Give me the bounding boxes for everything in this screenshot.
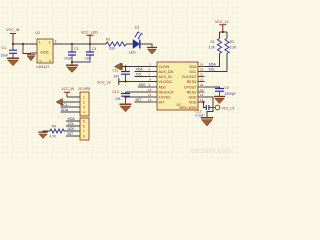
- svg-text:SCL: SCL: [190, 70, 197, 74]
- pin 8 INT: [66, 135, 85, 139]
- svg-text:AUX_DA: AUX_DA: [159, 70, 174, 74]
- wire FSYNC to gnd: [126, 96, 151, 98]
- wire VDD branch: [198, 102, 206, 108]
- pin INT 12: [148, 98, 165, 105]
- pin AD0 9: [149, 83, 166, 90]
- svg-text:20: 20: [200, 83, 204, 87]
- node junction CLKIN/C11: [124, 65, 126, 67]
- power port VCC_LED (on output rail): [81, 31, 98, 44]
- svg-text:VCC_LV: VCC_LV: [222, 107, 236, 111]
- wire output rail: [53, 43, 106, 45]
- pin GND 18: [189, 93, 205, 100]
- svg-text:10uF: 10uF: [1, 54, 9, 58]
- wire CPOUT to C9: [205, 87, 220, 88]
- svg-text:LM1117: LM1117: [37, 65, 50, 69]
- pin SDA 24: [189, 63, 204, 70]
- capacitor C1: [1, 44, 18, 58]
- node junction at caps gnd: [71, 61, 73, 63]
- svg-text:INT: INT: [159, 101, 166, 105]
- svg-text:AD0: AD0: [68, 127, 75, 131]
- pin AUX_CL 7: [149, 73, 173, 80]
- svg-text:SDA: SDA: [209, 63, 217, 67]
- svg-text:AD0: AD0: [159, 86, 166, 90]
- svg-text:3: 3: [83, 106, 85, 110]
- node junction at x90: [89, 43, 91, 45]
- node junction VCC split: [222, 31, 224, 33]
- svg-text:VCC_IN: VCC_IN: [6, 28, 20, 32]
- resistor R1: [106, 38, 126, 51]
- svg-text:SCL: SCL: [209, 68, 216, 72]
- wire SDA: [205, 54, 220, 67]
- svg-text:CPOUT: CPOUT: [184, 86, 197, 90]
- svg-text:22: 22: [200, 73, 204, 77]
- wire INT stub: [135, 101, 151, 103]
- svg-text:8: 8: [83, 135, 85, 139]
- wire AUX_CL stub: [135, 76, 151, 78]
- svg-text:R2: R2: [211, 40, 215, 44]
- svg-text:U2: U2: [36, 31, 40, 35]
- svg-text:CLKIN: CLKIN: [159, 65, 170, 69]
- capacitor C12: [196, 105, 215, 118]
- node junction FSYNC: [124, 96, 126, 98]
- svg-text:RESV: RESV: [187, 91, 197, 95]
- svg-text:VCC_LV: VCC_LV: [97, 81, 111, 85]
- svg-text:6: 6: [83, 125, 85, 129]
- connector J1 body lower: [80, 118, 89, 140]
- svg-text:10uF: 10uF: [64, 57, 72, 61]
- svg-text:1: 1: [83, 96, 85, 100]
- ground (IC GND, large): [201, 117, 213, 126]
- svg-text:19: 19: [200, 88, 204, 92]
- svg-text:SDA: SDA: [189, 65, 197, 69]
- pin AUX_DA 6: [149, 68, 174, 75]
- pin CLKIN 1: [150, 63, 170, 70]
- ground (C9): [214, 96, 225, 104]
- capacitor C4: [85, 44, 96, 61]
- svg-text:104: 104: [114, 75, 120, 79]
- power port VCC_LV (VLOGIC): [97, 78, 119, 84]
- svg-text:AUX_CL: AUX_CL: [159, 75, 173, 79]
- resistor R3: [225, 39, 237, 54]
- pin 5 XDA: [66, 120, 85, 124]
- pin RESV 21: [187, 78, 205, 85]
- svg-text:C3: C3: [74, 47, 78, 51]
- node junction VLOGIC: [124, 80, 126, 82]
- pin 6 XCL: [66, 125, 85, 129]
- svg-text:FSYNC: FSYNC: [159, 96, 172, 100]
- resistor R2: [209, 39, 222, 54]
- svg-text:21: 21: [200, 78, 204, 82]
- svg-text:MPU-6050: MPU-6050: [180, 106, 197, 110]
- svg-text:2.2K: 2.2K: [230, 46, 237, 50]
- svg-text:4: 4: [83, 111, 85, 115]
- node input junction: [12, 43, 14, 45]
- svg-text:XCL: XCL: [136, 73, 143, 77]
- node junction VDD: [202, 101, 204, 103]
- pin 7 AD0: [64, 130, 85, 134]
- wire caps ground join: [72, 55, 90, 64]
- svg-text:1: 1: [39, 40, 41, 44]
- svg-text:J1 DIP8: J1 DIP8: [78, 87, 90, 91]
- LED D1: [129, 26, 143, 55]
- pin SCL 23: [190, 68, 205, 75]
- pin 2 GND: [63, 101, 86, 105]
- svg-text:XDA: XDA: [68, 117, 76, 121]
- power port VCC_LV (top right): [215, 20, 229, 32]
- svg-text:elecfans.com: elecfans.com: [190, 148, 231, 155]
- svg-text:330: 330: [109, 47, 115, 51]
- svg-text:XCL: XCL: [68, 122, 75, 126]
- regulator U2: [31, 31, 59, 69]
- pin CLKOUT 22: [182, 73, 205, 80]
- ground (LED): [147, 47, 157, 54]
- svg-text:2: 2: [49, 40, 51, 44]
- capacitor C9: [215, 86, 236, 96]
- wire gnd branch from input rail: [23, 44, 31, 54]
- svg-text:GND: GND: [189, 96, 197, 100]
- svg-text:2200pF: 2200pF: [225, 92, 236, 96]
- svg-text:5: 5: [83, 120, 85, 124]
- power port VCC_IN (top left): [6, 28, 20, 44]
- wire LED cathode: [141, 44, 153, 47]
- connector J1 body upper: [80, 92, 89, 116]
- svg-text:C13: C13: [113, 90, 119, 94]
- pin 1 VCC: [67, 96, 85, 100]
- ground (left arrow on CLKIN): [115, 63, 123, 70]
- svg-text:D1: D1: [135, 26, 139, 30]
- capacitor C13: [113, 90, 131, 104]
- node junction at x72: [71, 43, 73, 45]
- wire R1 to LED: [126, 43, 133, 45]
- svg-text:SCL: SCL: [61, 103, 68, 107]
- svg-text:LED: LED: [129, 51, 136, 55]
- pin VDD 13: [189, 98, 205, 105]
- ground (left arrow at pin 2): [56, 99, 63, 106]
- svg-text:AD0: AD0: [139, 83, 146, 87]
- svg-text:VCC_LED: VCC_LED: [81, 31, 98, 35]
- svg-text:2: 2: [83, 101, 85, 105]
- svg-text:104: 104: [115, 97, 121, 101]
- op-amp U1 MPU-6050 body: [157, 62, 198, 110]
- ground (C13/FSYNC): [120, 104, 132, 112]
- resistor R4: [50, 125, 65, 139]
- svg-text:REGOUT: REGOUT: [159, 91, 175, 95]
- pin CPOUT 20: [184, 83, 205, 90]
- svg-text:R3: R3: [230, 40, 234, 44]
- svg-text:INT: INT: [68, 132, 75, 136]
- wire R4 to ground: [43, 130, 50, 133]
- wire REGOUT to C13: [126, 91, 151, 93]
- power port VCC_LV (circle, at VDD): [215, 105, 235, 111]
- svg-text:24: 24: [200, 63, 204, 67]
- svg-text:SDA: SDA: [61, 108, 69, 112]
- pin REGOUT 10: [148, 88, 175, 95]
- svg-text:RESV: RESV: [187, 80, 197, 84]
- wire VLOGIC: [119, 81, 157, 83]
- wire CLKIN to gnd arrow: [122, 66, 151, 68]
- svg-text:2.2K: 2.2K: [209, 46, 216, 50]
- pin 3 SCL: [61, 106, 86, 110]
- wire SCL: [205, 54, 228, 72]
- ground (regulator gnd pin): [27, 54, 35, 61]
- svg-text:R1: R1: [106, 38, 110, 42]
- svg-text:C9: C9: [225, 86, 229, 90]
- wire AUX_DA stub: [135, 71, 151, 73]
- wire pull-up split: [220, 32, 228, 39]
- svg-text:VCC_LV: VCC_LV: [215, 20, 229, 24]
- pin RESV 19: [187, 88, 205, 95]
- ground (below C1): [7, 58, 19, 66]
- svg-text:4.7K: 4.7K: [50, 135, 57, 139]
- ground (R4): [38, 132, 47, 139]
- wire GND pin to ground: [205, 97, 214, 117]
- svg-text:18: 18: [200, 93, 204, 97]
- svg-text:C1: C1: [2, 46, 6, 50]
- svg-text:VDD: VDD: [189, 101, 197, 105]
- pin VLOGIC 8: [150, 78, 173, 85]
- svg-text:XDA: XDA: [136, 68, 144, 72]
- pin 4 SDA: [61, 111, 86, 115]
- svg-text:VLOGIC: VLOGIC: [159, 80, 173, 84]
- svg-text:VCC_IN: VCC_IN: [62, 87, 75, 91]
- power port VCC_IN (header): [62, 87, 75, 97]
- svg-text:3: 3: [55, 40, 57, 44]
- svg-text:R4: R4: [52, 125, 56, 129]
- svg-text:6206: 6206: [41, 51, 49, 55]
- node junction at x23: [22, 43, 24, 45]
- capacitor C3: [64, 44, 78, 61]
- svg-text:CLKOUT: CLKOUT: [182, 75, 197, 79]
- svg-text:C12: C12: [196, 110, 202, 114]
- svg-text:C4: C4: [92, 47, 96, 51]
- pin FSYNC 11: [148, 93, 171, 100]
- wire input rail: [13, 43, 37, 45]
- capacitor C11: [113, 67, 131, 82]
- wire AD0 stub: [138, 86, 151, 88]
- ground (output caps): [66, 65, 78, 73]
- svg-text:INT: INT: [136, 98, 143, 102]
- svg-text:C11: C11: [113, 69, 119, 73]
- svg-text:23: 23: [200, 68, 204, 72]
- svg-text:0.1uF: 0.1uF: [196, 114, 204, 118]
- svg-text:7: 7: [83, 130, 85, 134]
